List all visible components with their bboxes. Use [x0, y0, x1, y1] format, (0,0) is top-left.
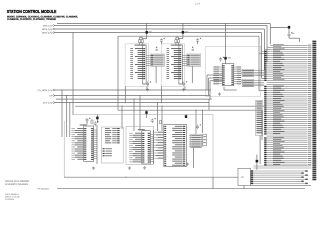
svg-text:MOSI (2,3): MOSI (2,3) — [42, 28, 52, 31]
resistor network RN2 — [242, 80, 254, 87]
capacitor at bottom of U2 — [182, 82, 185, 87]
wire below RN of U1 — [155, 66, 157, 83]
IC U6 body — [142, 131, 151, 164]
wire vertical x209 loop — [208, 99, 210, 110]
capacitor C7 left of U3 — [219, 57, 222, 62]
vertical feeds into bottom ICs — [121, 106, 123, 129]
IC U2 header label — [171, 45, 182, 46]
wire J5 drop — [243, 186, 245, 189]
IC U6 internal pin numbers — [142, 133, 150, 163]
IC U7 external net labels — [153, 132, 164, 159]
resistor network right of U1 — [151, 54, 165, 66]
capacitor C17 — [196, 125, 199, 130]
wire MDET (2) horizontal — [54, 25, 267, 27]
IC U7 internal rows — [164, 126, 185, 166]
wires U3 right pins to RN — [241, 71, 242, 83]
IC U7 body — [164, 125, 187, 167]
diode CR3 above U3 — [224, 57, 226, 60]
svg-text:21-4: 21-4 — [195, 3, 201, 6]
vertical feeds from CH rows — [61, 90, 63, 137]
IC U4 body — [84, 126, 94, 162]
wire CH_MOSI (1,3) — [54, 89, 211, 91]
wires RN1/RN2 to P1 bar — [254, 71, 264, 86]
wire vertical from MISO row down left side — [72, 33, 74, 115]
wire bus line 4 vertical drop to P1 — [258, 36, 260, 90]
rows above J5 to P1 — [253, 166, 311, 168]
wire vertical x260 below secondary column — [259, 136, 261, 165]
IC U4 header label — [80, 124, 87, 125]
wire MOSI (2,3) vertical drop to P1 — [264, 29, 266, 70]
diode CR7 — [145, 111, 147, 114]
wire below RN3 — [193, 148, 195, 168]
capacitor C near U2 — [196, 38, 199, 42]
svg-text:MDET (2): MDET (2) — [43, 25, 52, 28]
ground below U6 — [143, 166, 146, 169]
wire vertical x213 — [212, 177, 214, 188]
IC U2 internal pin numbers — [179, 48, 181, 79]
resistor pair above U2 — [175, 40, 177, 43]
ground below U4 — [92, 167, 95, 170]
IC U6 pin stubs right — [150, 135, 153, 162]
capacitor C16 — [151, 118, 154, 123]
wire below RN of U2 — [191, 66, 193, 83]
ground below U5 — [128, 167, 131, 170]
small box U8 — [203, 134, 207, 146]
wire vertical below U2 frame — [161, 87, 163, 104]
IC U2 pin rows left — [167, 48, 180, 79]
IC U6 header label — [138, 129, 145, 130]
ground below U3 — [218, 93, 221, 96]
resistor network RN1 — [242, 69, 254, 76]
secondary pin number column — [256, 100, 263, 135]
capacitor above RN of U2 — [192, 46, 194, 48]
wire frame right of U4 — [96, 125, 98, 164]
svg-text:P1_9A (2,D): P1_9A (2,D) — [38, 188, 50, 191]
diode CR6 — [96, 117, 98, 120]
capacitor C12 — [288, 29, 290, 34]
svg-text:ACK (1,3): ACK (1,3) — [43, 102, 52, 105]
IC U6 pin rows left — [129, 133, 141, 163]
IC U4 pin rows left — [72, 128, 84, 160]
IC U3 pin rows left — [213, 67, 222, 85]
wire long bottom bus — [57, 188, 305, 190]
wire U2 bottom — [179, 83, 181, 85]
outer frame bottom section — [72, 114, 213, 116]
wire top rail drop to P1 — [269, 24, 271, 45]
ground below U2 — [182, 88, 185, 91]
diode CR above U2 — [182, 31, 184, 34]
wire below U3 — [223, 87, 225, 90]
wires U3 left to bus verticals — [207, 74, 222, 76]
wire CR3 up to top rail — [225, 24, 227, 57]
IC U3 body — [222, 64, 234, 86]
IC U1 pin rows left — [130, 48, 143, 79]
resistor network RN3 stripes — [189, 134, 203, 148]
connector P1 pin list rows — [259, 44, 311, 165]
connector J5 pin rows — [251, 170, 308, 184]
wire vertical x118 feed — [117, 36, 119, 110]
IC U1 pin stubs right — [146, 55, 151, 65]
wire CS — [54, 95, 210, 97]
capacitor above RN of U1 — [156, 46, 158, 48]
outer frame around U1 — [125, 44, 148, 87]
outer frame around U2 — [161, 44, 184, 87]
svg-text:NONVOLATILE MEMORY: NONVOLATILE MEMORY — [5, 180, 30, 183]
IC U3 internal pin numbers — [223, 65, 234, 85]
vertical drop right x262 to lower rows — [261, 110, 263, 140]
wire MISO (2,3) horizontal — [54, 32, 261, 34]
IC U5 upper pin rows — [105, 128, 120, 143]
diode CR9 above J5 — [256, 160, 259, 163]
wire bottom box edge y177 — [64, 176, 238, 178]
wire bus line 4 horizontal — [118, 35, 259, 37]
capacitor at bottom of U1 — [146, 82, 149, 87]
IC U1 internal pin numbers — [143, 48, 145, 79]
resistor R10 — [91, 120, 93, 123]
svg-text:STATION CONTROL MODULE: STATION CONTROL MODULE — [7, 9, 57, 14]
ground below U1 — [146, 88, 149, 91]
capacitor C near U1 — [160, 38, 163, 42]
diode CR5 top right — [288, 26, 290, 29]
connector J5 box — [238, 168, 250, 185]
IC U3 pin rows right — [234, 67, 241, 85]
capacitor C15 — [86, 118, 89, 123]
IC U5 (bottom left) — [102, 127, 124, 163]
wire ACK (1,3) — [54, 102, 209, 104]
wire bus y106 — [75, 105, 264, 107]
IC U4 internal pin numbers — [84, 128, 93, 160]
IC U1 header label — [135, 45, 146, 46]
wire MOSI (2,3) horizontal — [54, 28, 264, 30]
IC U2 pin stubs right — [182, 55, 187, 65]
IC U1 body — [143, 45, 146, 84]
outer frame around U3 — [206, 46, 261, 96]
wire frame right of U6 — [153, 130, 155, 164]
svg-text:MISO (2,3): MISO (2,3) — [42, 32, 52, 35]
wire MDET (2) vertical drop to P1 — [266, 26, 268, 62]
wire C12 to P1 — [289, 37, 300, 39]
IC U2 body — [179, 45, 182, 84]
wire U1 to mid bus — [146, 87, 148, 91]
connector P1 right pin boxes — [312, 41, 316, 181]
svg-text:CLN6991E, CLN7367C, CLN7452C,: CLN6991E, CLN7367C, CLN7452C, TRN9630 — [7, 18, 57, 21]
wire U2 to mid bus — [184, 87, 186, 91]
diode CR above U1 — [146, 31, 148, 34]
wire to CR5 — [270, 26, 288, 28]
wire MISO (2,3) vertical drop to P1 — [261, 33, 263, 79]
resistor pair above U1 — [139, 40, 141, 43]
wire y185.7 — [250, 185, 311, 187]
diode CR8 — [185, 115, 187, 118]
IC U6 (bottom middle-left) — [126, 126, 154, 164]
resistor R11 — [160, 121, 162, 124]
wire top rail — [57, 23, 270, 25]
wire vertical below U1 frame — [124, 87, 126, 104]
IC U5 lower pin rows — [103, 148, 112, 156]
IC U4 pin stubs right — [94, 130, 97, 159]
wire bus y110 — [118, 109, 262, 111]
svg-text:2/13/2004: 2/13/2004 — [5, 198, 15, 201]
svg-text:CH_MOSI (1,3): CH_MOSI (1,3) — [38, 89, 53, 92]
wire bus y99 — [56, 98, 212, 100]
capacitor C14 top right of U4 — [94, 121, 97, 126]
ground below U7 — [186, 163, 189, 166]
resistor network right of U2 — [187, 54, 201, 66]
wire U1 bottom — [143, 83, 145, 85]
svg-text:SCHEMATIC DIAGRAM: SCHEMATIC DIAGRAM — [5, 183, 28, 186]
